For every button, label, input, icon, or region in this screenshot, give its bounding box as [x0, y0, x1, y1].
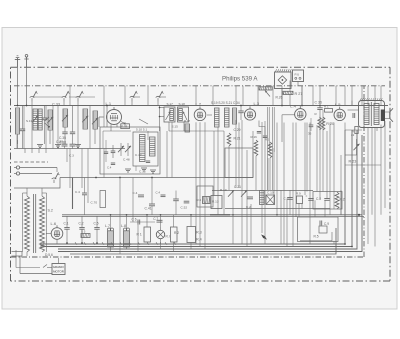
- inner shield dashed line right: [363, 86, 365, 257]
- resistor R.14 zigzag: [265, 138, 272, 159]
- svg-text:C.7: C.7: [153, 217, 158, 221]
- label C.47: [135, 153, 142, 157]
- svg-text:R.4: R.4: [196, 237, 201, 241]
- wire pickup drop: [298, 82, 302, 106]
- svg-text:5.10 5.1: 5.10 5.1: [136, 128, 147, 132]
- label R 20: [326, 122, 334, 126]
- svg-text:C.70: C.70: [91, 201, 98, 205]
- coil S.13b: [38, 109, 42, 130]
- resistor R.6: [197, 197, 211, 204]
- svg-text:C.52: C.52: [181, 205, 188, 209]
- svg-text:L.6: L.6: [51, 221, 57, 226]
- svg-text:C.29: C.29: [234, 128, 241, 132]
- choke L.8: [121, 224, 130, 247]
- resistor box R.1: [137, 227, 151, 242]
- pickup jack box: [293, 70, 304, 82]
- coil S.20: [225, 108, 230, 127]
- small box R5: [319, 226, 327, 233]
- wire gram loop: [14, 178, 60, 189]
- switch S4 waveband: [30, 91, 38, 106]
- switch S8 waveband: [156, 91, 164, 106]
- wire AF bus: [60, 177, 253, 179]
- svg-text:C.4: C.4: [156, 191, 161, 195]
- wire antenna lead-in: [17, 67, 19, 106]
- wire: [169, 130, 224, 132]
- coil choke: [260, 191, 265, 205]
- wire screen grid bus: [14, 148, 125, 150]
- wire inner corner: [300, 232, 332, 241]
- svg-text:R.3: R.3: [196, 231, 201, 235]
- svg-text:S.17: S.17: [167, 102, 174, 106]
- capacitor C.1: [64, 216, 70, 244]
- wire IFT feeds: [159, 106, 184, 132]
- wire left-mid drops: [70, 106, 104, 204]
- wire L.4 grid: [282, 115, 295, 142]
- output transformer S.22 S.23: [359, 98, 385, 127]
- label S.15: [172, 124, 179, 128]
- capacitor C.11: [287, 198, 292, 200]
- choke L.7: [105, 224, 114, 247]
- wire: [49, 130, 51, 144]
- mains transformer primary: [25, 196, 30, 252]
- capacitor C.51: [173, 191, 179, 215]
- wire double pair 1: [268, 107, 270, 190]
- wire bus ticks: [25, 149, 46, 154]
- svg-text:C 6: C 6: [132, 218, 137, 222]
- wire rectifier leads: [46, 234, 57, 245]
- capacitor C.15: [139, 161, 150, 174]
- title Philips 539 A: [222, 75, 258, 82]
- svg-text:D.5.6: D.5.6: [45, 253, 53, 257]
- wire transformer top leads: [14, 188, 60, 196]
- svg-text:C 36: C 36: [315, 100, 322, 104]
- speaker magnet: [381, 110, 385, 122]
- resistor box R.15: [121, 124, 130, 129]
- lamp M.1: [156, 227, 169, 244]
- label S.13: [26, 119, 33, 123]
- capacitor C.44b: [156, 191, 166, 197]
- dash chassis segment: [14, 161, 48, 163]
- svg-text:R.10: R.10: [220, 188, 227, 192]
- IF transformer box S.18: [178, 102, 189, 122]
- svg-text:R.17: R.17: [184, 119, 190, 123]
- switch gram: [52, 168, 60, 184]
- label D.5.6: [45, 253, 53, 257]
- potentiometer R.10: [227, 190, 235, 197]
- resistor box R.3 R.4: [187, 227, 202, 243]
- svg-text:S.13: S.13: [26, 119, 33, 123]
- switch motor: [43, 265, 52, 268]
- wire tube L.1 drops: [111, 122, 126, 132]
- antenna terminal: [15, 56, 20, 67]
- wire: [17, 134, 19, 149]
- wire thick vertical: [72, 178, 74, 210]
- tube L.5: [334, 102, 345, 121]
- tube L.3: [244, 101, 259, 120]
- capacitor C.9: [320, 221, 329, 227]
- resistor R.26 hatched: [259, 87, 283, 100]
- capacitor L.5 anode: [353, 113, 355, 118]
- capacitor C.38: [70, 106, 75, 145]
- capacitor C.13b: [324, 199, 329, 201]
- speaker cone: [385, 108, 393, 122]
- svg-text:R.26: R.26: [276, 96, 283, 100]
- svg-text:S 5: S 5: [81, 230, 86, 234]
- coil S.14: [82, 109, 88, 129]
- box detector: [225, 148, 253, 178]
- resistor R.2 zigzag: [335, 192, 345, 209]
- wire top stubs: [70, 86, 381, 106]
- wire transformer leads: [348, 101, 378, 132]
- coil S.13: [32, 109, 38, 130]
- coil S.21: [233, 108, 237, 124]
- trimmer C.37: [92, 118, 98, 144]
- wire bundle line1: [45, 130, 345, 244]
- label C.35: [59, 136, 66, 140]
- capacitor C.13: [111, 145, 116, 158]
- wire switch rail: [33, 96, 166, 98]
- svg-text:L.7: L.7: [105, 224, 110, 228]
- resistor R.13: [211, 196, 222, 209]
- svg-text:C.2: C.2: [79, 222, 84, 226]
- svg-text:R.I: R.I: [166, 235, 170, 239]
- wire vertical drops lower: [67, 123, 341, 255]
- label R.21: [234, 137, 241, 141]
- cursor arrow mark: [262, 235, 266, 239]
- tube L.2: [194, 102, 206, 121]
- svg-text:S.15: S.15: [172, 124, 179, 128]
- label C.38: [59, 141, 66, 145]
- box C.9 area: [298, 217, 339, 242]
- tube L.4: [290, 104, 306, 120]
- label R.5: [314, 235, 319, 239]
- svg-text:C.41: C.41: [145, 207, 152, 211]
- wire AVC rail: [212, 190, 313, 192]
- svg-text:C.48: C.48: [123, 158, 130, 162]
- svg-text:L.2: L.2: [196, 102, 202, 107]
- switch S6 waveband: [76, 91, 84, 106]
- potentiometer R.23: [349, 139, 360, 164]
- resistor R.20 zigzag: [322, 117, 325, 130]
- box AF filter: [313, 192, 342, 210]
- label C.48: [123, 158, 130, 162]
- svg-text:=: =: [306, 194, 308, 198]
- svg-text:L.4: L.4: [290, 104, 296, 109]
- svg-text:R 27: R 27: [295, 92, 303, 96]
- box C.10: [266, 191, 275, 205]
- wire bundle line3: [58, 130, 357, 249]
- capacitor C.31: [20, 106, 25, 149]
- svg-text:C.8: C.8: [316, 197, 321, 201]
- resistor R.22: [351, 127, 358, 138]
- svg-text:R.1: R.1: [324, 105, 329, 109]
- capacitor C.32: [42, 106, 50, 145]
- svg-text:R 1: R 1: [137, 233, 142, 237]
- inner box oscillator pad: [133, 132, 158, 166]
- potentiometer arrow: [265, 91, 270, 97]
- wire indicator drop: [266, 81, 291, 106]
- label S.10 S.17: [136, 128, 147, 132]
- label C.33: [52, 103, 60, 107]
- transformer enclosure: [23, 193, 47, 252]
- capacitor C.39: [56, 140, 68, 149]
- svg-text:MOTOR: MOTOR: [53, 270, 64, 274]
- svg-text:C.39: C.39: [56, 140, 63, 144]
- svg-text:R.5: R.5: [314, 235, 319, 239]
- svg-text:R.2: R.2: [340, 198, 345, 202]
- diagonal grid wire: [139, 119, 148, 124]
- coil S.12: [47, 110, 53, 130]
- wire bundle line4: [58, 135, 362, 252]
- wire left verticals2: [16, 135, 18, 149]
- wire motor top: [58, 258, 60, 264]
- hatch marks indicator top: [275, 69, 291, 72]
- svg-text:R.2: R.2: [174, 231, 179, 235]
- resistor R.27 hatched: [283, 91, 302, 96]
- svg-text:R.1: R.1: [265, 138, 270, 142]
- transformer core: [34, 194, 36, 253]
- svg-text:R.9: R.9: [296, 192, 301, 196]
- trimmer C.45: [125, 143, 131, 156]
- coil S.10 aerial: [16, 108, 20, 134]
- wire output connections: [345, 130, 381, 165]
- ground: [55, 145, 61, 148]
- svg-text:R.15: R.15: [121, 125, 127, 129]
- ground: [75, 145, 81, 148]
- labels S.19 S.20 S.21 C.34: [211, 101, 240, 105]
- capacitor C.41: [145, 178, 156, 215]
- capacitor C.46: [104, 140, 108, 162]
- capacitor C.49: [107, 163, 115, 170]
- box R.6 group: [197, 186, 213, 207]
- screen box mixer: [100, 127, 160, 174]
- wire choke drops: [111, 247, 127, 252]
- resistor R.19 zigzag: [315, 112, 322, 130]
- svg-text:C.1: C.1: [64, 222, 69, 226]
- earth terminal: [24, 55, 28, 68]
- svg-text:R.16: R.16: [251, 135, 258, 139]
- label C.8: [316, 197, 321, 201]
- svg-text:S.19 S.20 S.21 C.34: S.19 S.20 S.21 C.34: [211, 101, 240, 105]
- wire mixer inner: [103, 131, 148, 171]
- wire anode L.2: [207, 114, 212, 116]
- coil S.9: [93, 111, 98, 129]
- resistor R.21 zigzag: [227, 133, 231, 146]
- capacitor C.20: [246, 197, 253, 209]
- coil R.17: [184, 119, 190, 132]
- wire lower bus second: [62, 216, 364, 218]
- resistor R.9: [296, 192, 303, 204]
- capacitor C.40: [133, 191, 145, 197]
- capacitor C.36: [315, 100, 323, 117]
- svg-text:C 21: C 21: [234, 185, 241, 189]
- label C.29: [234, 128, 241, 132]
- wire bundle line5: [70, 228, 336, 254]
- capacitor C.12: [306, 194, 314, 200]
- svg-text:L.3: L.3: [254, 101, 260, 106]
- svg-text:C.5: C.5: [94, 222, 99, 226]
- switch S7 waveband: [130, 91, 138, 106]
- trimmer C.35: [62, 115, 68, 144]
- ground: [150, 170, 156, 173]
- capacitor C.30: [69, 144, 76, 157]
- inner shield dashed line bottom: [11, 256, 364, 258]
- svg-text:R.6: R.6: [197, 198, 202, 202]
- gram terminal 1: [14, 166, 57, 169]
- svg-text:S.18: S.18: [179, 102, 186, 106]
- wire left verticals: [24, 106, 90, 149]
- svg-text:Philips 539 A: Philips 539 A: [222, 75, 258, 82]
- trimmer C.44: [118, 143, 124, 156]
- mains transformer secondary: [40, 196, 53, 252]
- tube L.1: [106, 101, 122, 124]
- label R.2 text: [174, 231, 179, 235]
- box R.24: [100, 191, 106, 208]
- wire bus dark segment: [210, 214, 230, 216]
- capacitor C.6: [130, 218, 155, 225]
- coil S.11: [63, 109, 68, 127]
- svg-text:P.U: P.U: [295, 73, 300, 77]
- ground: [37, 145, 43, 148]
- potentiometer R.11: [241, 190, 247, 196]
- svg-text:C.9: C.9: [324, 222, 329, 226]
- wire mid rail: [225, 208, 330, 210]
- capacitor C.2: [79, 216, 85, 244]
- svg-text:L.8: L.8: [121, 224, 126, 228]
- resistor R.16 zigzag: [251, 135, 258, 156]
- resistor R.18: [324, 105, 333, 113]
- wire bundle line2: [45, 130, 352, 247]
- outer chassis dash-dot border: [11, 67, 391, 281]
- capacitor C.42: [75, 178, 87, 215]
- capacitor C.34: [238, 106, 243, 121]
- label C.9b: [284, 197, 289, 201]
- capacitor C.52: [181, 201, 190, 209]
- svg-text:C.4: C.4: [75, 190, 80, 194]
- coil S.7 inside: [150, 137, 156, 156]
- wire main HT bus: [14, 105, 388, 107]
- switch S5 waveband: [62, 91, 70, 106]
- wire motor loop: [16, 250, 52, 274]
- svg-text:GRAMO: GRAMO: [53, 265, 65, 269]
- svg-text:S.2: S.2: [48, 209, 53, 213]
- gram terminal 2: [14, 172, 52, 175]
- capacitor C.35b: [308, 118, 313, 136]
- connector arrows: [41, 243, 45, 248]
- capacitor C.5: [94, 216, 100, 244]
- wire double pair 2: [273, 107, 275, 190]
- coil S.6 inside: [140, 135, 146, 162]
- coil S.19: [215, 108, 220, 127]
- svg-text:C.15: C.15: [139, 170, 146, 174]
- label R.10b: [220, 188, 227, 192]
- gramo motor box: [52, 264, 65, 275]
- resistor box R.2b: [171, 227, 178, 242]
- cable hatch marks: [75, 242, 176, 245]
- resistor S.5: [81, 230, 90, 238]
- svg-text:R.21: R.21: [234, 137, 241, 141]
- svg-text:C.47: C.47: [135, 153, 142, 157]
- wire L.3 anode jog: [257, 121, 267, 138]
- wire lower bus: [62, 214, 362, 216]
- tube L.6 rectifier: [51, 221, 63, 239]
- ground: [125, 169, 131, 172]
- ground: [141, 168, 147, 171]
- capacitor C.7: [153, 217, 162, 222]
- svg-text:C.10: C.10: [267, 191, 274, 195]
- wire earth lead-in: [26, 67, 28, 106]
- inner shield dashed line top: [14, 85, 385, 87]
- wire mains leads: [12, 252, 28, 257]
- wire vertical drops: [167, 110, 385, 249]
- label C.21: [234, 185, 241, 189]
- wire mixer drops: [107, 106, 125, 128]
- tuning indicator box: [275, 72, 292, 89]
- wire grid L.1: [99, 117, 104, 127]
- label C.70: [91, 201, 98, 205]
- svg-text:C.4: C.4: [107, 166, 112, 170]
- IF transformer box S.17: [164, 102, 175, 122]
